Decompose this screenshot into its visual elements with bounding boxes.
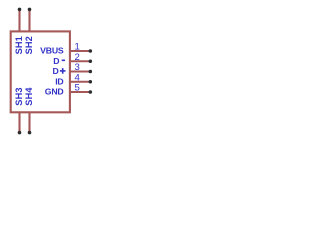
pin SH4 [24, 87, 34, 135]
pin SH3 [14, 87, 24, 134]
symbol body U1 [11, 31, 70, 112]
svg-text:SH4: SH4 [24, 87, 34, 106]
pin SH2 [24, 8, 34, 55]
svg-text:D: D [53, 56, 59, 66]
pin 5 GND [45, 83, 92, 97]
svg-text:SH1: SH1 [14, 36, 24, 54]
svg-text:D: D [53, 66, 59, 76]
svg-text:SH3: SH3 [14, 87, 24, 105]
svg-text:VBUS: VBUS [40, 46, 64, 56]
pin SH1 [14, 8, 24, 55]
svg-text:GND: GND [45, 87, 64, 97]
svg-text:SH2: SH2 [24, 36, 34, 54]
pin 4 ID [55, 72, 92, 86]
pin 1 VBUS [40, 42, 92, 56]
svg-text:5: 5 [75, 83, 80, 94]
svg-text:ID: ID [55, 76, 63, 86]
pin 3 D+ [53, 62, 93, 76]
pin 2 D- [53, 52, 92, 66]
